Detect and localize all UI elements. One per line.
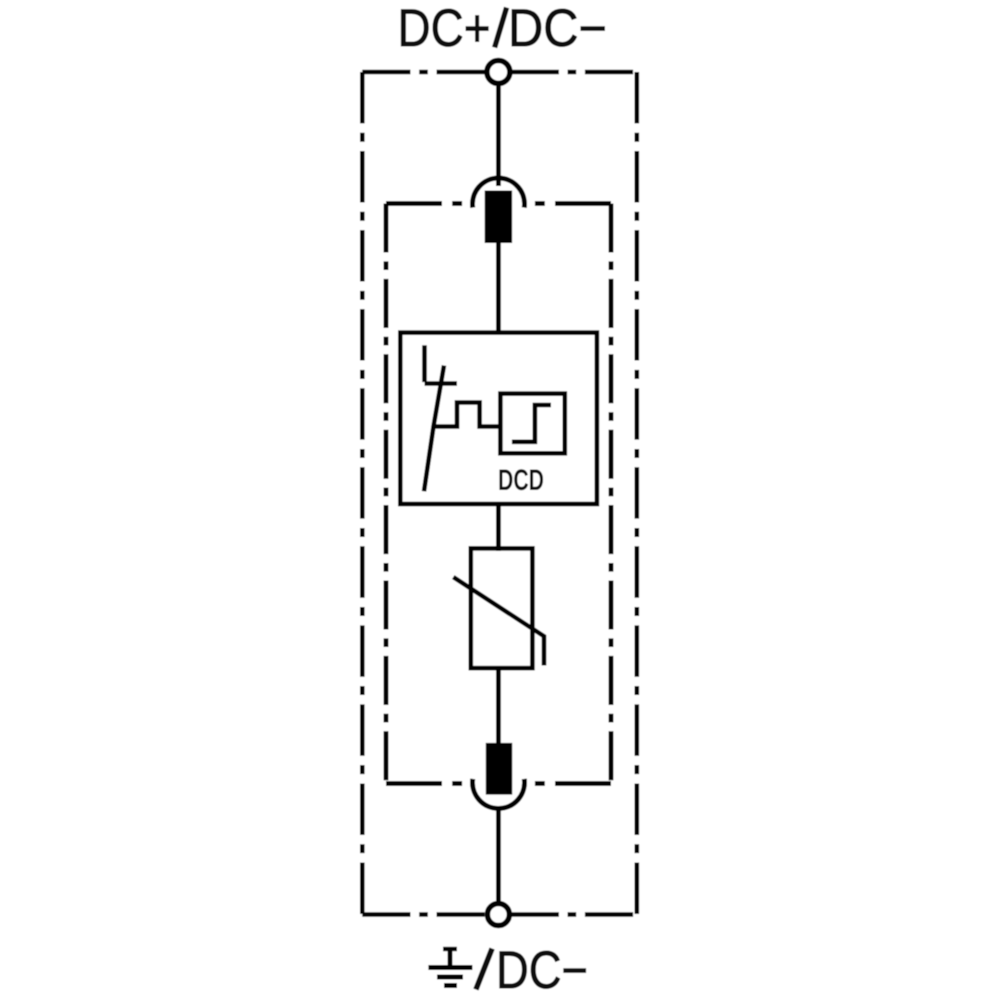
slash separator in top label bbox=[495, 8, 507, 48]
upper plug-in contact arc bbox=[473, 178, 525, 208]
ground symbol stem bbox=[448, 947, 453, 968]
step function symbol inside trigger box bbox=[512, 405, 551, 442]
ground symbol long bar bbox=[428, 965, 472, 970]
wire from lower contact to bottom terminal bbox=[496, 806, 501, 906]
disconnector contact horizontal tick bbox=[425, 381, 458, 386]
outer enclosure border bottom edge (dash-dot) bbox=[362, 912, 637, 917]
surge waveform step line bbox=[434, 403, 501, 427]
bottom terminal circle bbox=[487, 904, 509, 926]
wire from upper contact to DCD box bbox=[496, 243, 501, 334]
inner plug-in module border bottom edge left part (dash-dot) bbox=[386, 781, 472, 786]
DC disconnector box U1 (DCD) bbox=[400, 333, 597, 504]
svg-text:DC−: DC− bbox=[496, 941, 588, 1000]
inner plug-in module border top edge left part (dash-dot) bbox=[386, 201, 472, 206]
outer enclosure border right edge (dash-dot) bbox=[634, 72, 639, 915]
slash separator in bottom label bbox=[476, 949, 492, 990]
disconnector fixed contact vertical lead bbox=[422, 345, 427, 382]
svg-text:DC−: DC− bbox=[508, 0, 607, 58]
ground symbol middle bar bbox=[437, 975, 463, 980]
varistor RV1 body bbox=[471, 548, 533, 668]
wire from DCD box to varistor bbox=[496, 504, 501, 551]
svg-text:DC+: DC+ bbox=[398, 0, 491, 58]
ground symbol top tick bbox=[443, 947, 457, 951]
inner plug-in module border left edge (dash-dot) bbox=[384, 204, 389, 784]
inner plug-in module border bottom edge right part (dash-dot) bbox=[525, 781, 611, 786]
wire from top terminal to upper plug-in contact bbox=[496, 80, 501, 186]
top terminal circle bbox=[487, 61, 510, 84]
outer enclosure border top edge (dash-dot) bbox=[362, 70, 637, 75]
inner plug-in module border top edge right part (dash-dot) bbox=[525, 201, 611, 206]
wire from varistor to lower plug-in contact bbox=[496, 667, 501, 745]
upper plug-in contact bar (filled) bbox=[485, 191, 512, 244]
outer enclosure border left edge (dash-dot) bbox=[360, 72, 365, 915]
lower plug-in contact bar (filled) bbox=[486, 743, 512, 795]
svg-text:DCD: DCD bbox=[498, 464, 544, 497]
inner plug-in module border right edge (dash-dot) bbox=[609, 204, 614, 784]
ground symbol short bar bbox=[444, 983, 457, 988]
lower plug-in contact arc bbox=[472, 779, 524, 809]
trigger unit small box bbox=[500, 394, 564, 454]
varistor strike line (diagonal with tail) bbox=[453, 577, 544, 665]
disconnector switch blade (diagonal, slight kink at waveform junction) bbox=[424, 366, 444, 492]
